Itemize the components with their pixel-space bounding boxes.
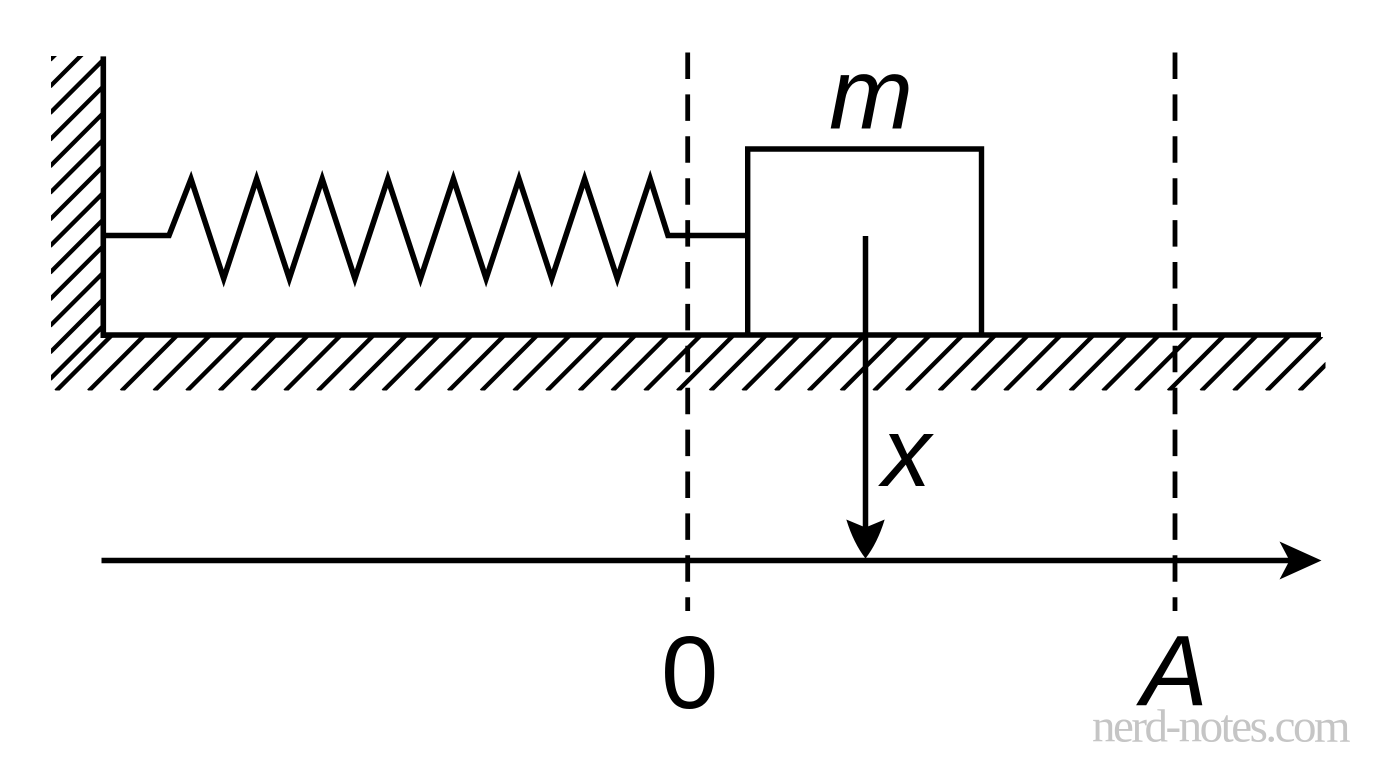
- svg-text:nerd-notes.com: nerd-notes.com: [1092, 701, 1350, 753]
- x axis line: [102, 558, 1291, 564]
- floor hatching: [56, 336, 1354, 391]
- x axis arrowhead: [1280, 542, 1322, 580]
- svg-text:x: x: [878, 397, 934, 507]
- dashed line 0: [685, 53, 690, 612]
- spring: [101, 179, 748, 279]
- svg-text:0: 0: [661, 615, 718, 730]
- svg-text:m: m: [829, 39, 913, 151]
- dashed line A: [1173, 53, 1178, 612]
- displacement arrow x (shaft): [863, 236, 869, 534]
- floor: [101, 332, 1322, 338]
- mass block m: [748, 149, 982, 336]
- displacement arrow x (head): [846, 520, 884, 559]
- wall hatching: [50, 6, 104, 380]
- wall: [101, 56, 107, 338]
